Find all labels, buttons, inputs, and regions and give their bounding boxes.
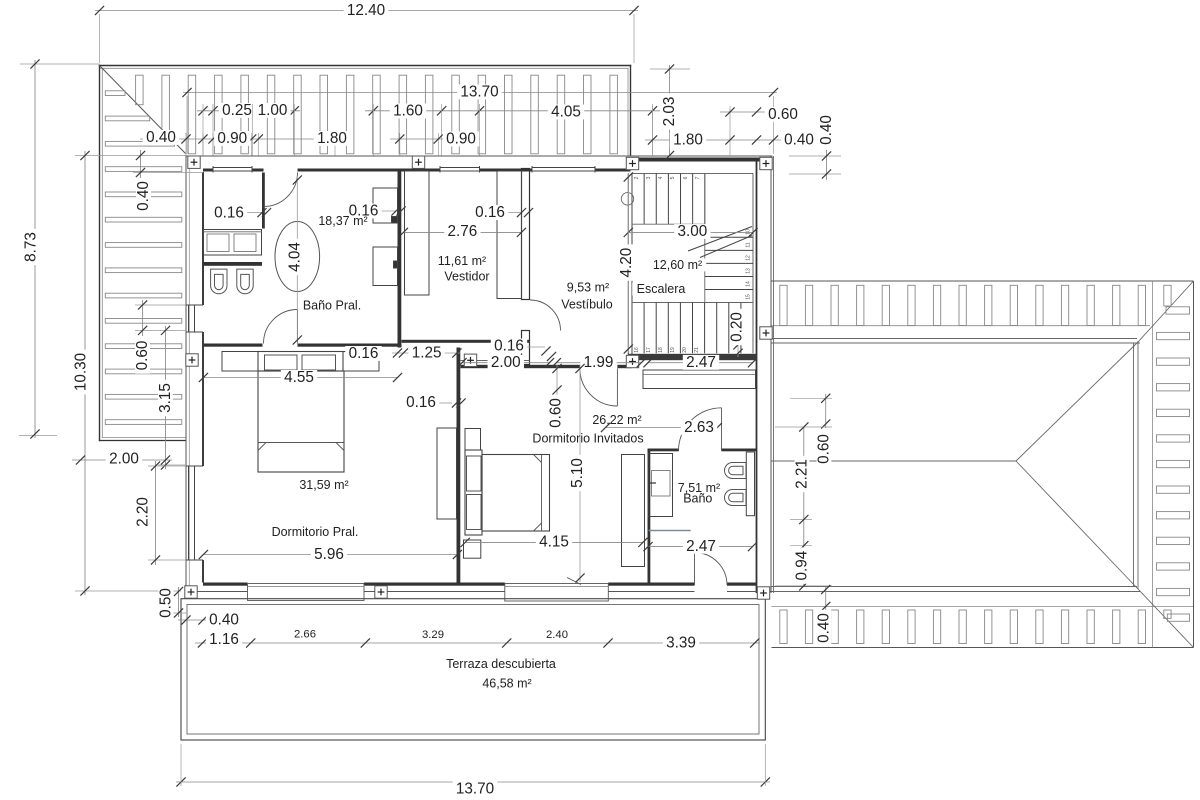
svg-text:15: 15	[746, 294, 752, 300]
roof top-left band outline	[100, 66, 631, 441]
svg-text:2.47: 2.47	[686, 354, 716, 371]
wall stair bottom	[628, 354, 756, 360]
column markers	[185, 156, 772, 599]
terrace inner line	[187, 605, 759, 735]
label Bano	[678, 481, 720, 506]
svg-text:0.16: 0.16	[475, 204, 505, 221]
svg-text:0.16: 0.16	[349, 345, 379, 362]
svg-text:4.20: 4.20	[618, 248, 635, 278]
wall partition Bano Pral toilets	[203, 262, 262, 266]
svg-text:0.60: 0.60	[548, 398, 565, 428]
svg-text:3.15: 3.15	[157, 383, 174, 413]
svg-text:4: 4	[658, 176, 664, 179]
wall Bano Pral bottom	[203, 344, 402, 347]
svg-text:18: 18	[658, 347, 664, 353]
svg-text:10.30: 10.30	[73, 353, 90, 391]
dim 0.60 top right	[720, 106, 801, 123]
label Terraza	[446, 657, 556, 691]
svg-text:4.55: 4.55	[284, 369, 314, 386]
window top wall above Vestibulo	[532, 166, 595, 173]
wall Vestibulo / Dormitorio Invitados bottom	[461, 361, 633, 369]
svg-text:0.40: 0.40	[816, 613, 833, 643]
svg-text:0.90: 0.90	[217, 130, 247, 147]
svg-text:31,59 m²: 31,59 m²	[299, 478, 348, 492]
svg-text:2.03: 2.03	[661, 97, 678, 127]
svg-text:0.40: 0.40	[209, 612, 239, 629]
door Bano Pral entry	[264, 173, 298, 207]
dim row upper (0.25 1.00 1.60 4.05)	[197, 102, 660, 121]
Bano towel rail	[649, 530, 691, 532]
dim 0.60 Dormitorio Invitados vertical	[548, 364, 565, 431]
Bano Pral bidet	[237, 269, 253, 294]
dim 4.20 Escalera vertical	[618, 172, 635, 353]
door Bano Pral to Dormitorio	[264, 310, 298, 344]
right exterior wall	[753, 156, 774, 593]
wall Bano left	[648, 449, 651, 583]
svg-text:Vestíbulo: Vestíbulo	[561, 298, 612, 312]
svg-text:3.29: 3.29	[422, 629, 444, 641]
svg-text:4.04: 4.04	[287, 242, 304, 272]
svg-text:Dormitorio Pral.: Dormitorio Pral.	[272, 525, 359, 539]
svg-text:21: 21	[694, 347, 700, 353]
dim 0.20 stair wall	[729, 309, 746, 358]
svg-text:3.39: 3.39	[666, 635, 696, 652]
svg-text:0.60: 0.60	[816, 434, 833, 464]
Dormitorio Invitados sideboard under stairs	[643, 370, 756, 389]
wall Bano Pral / Vestidor	[398, 169, 402, 348]
svg-text:Escalera: Escalera	[637, 282, 686, 296]
svg-text:8.73: 8.73	[23, 232, 40, 262]
svg-text:0.40: 0.40	[146, 129, 176, 146]
label Vestibulo	[561, 281, 612, 312]
svg-text:4.05: 4.05	[551, 104, 581, 121]
roof right wing hip ridge and diagonals	[772, 281, 1194, 648]
roof hatch right wing top band	[780, 285, 1171, 325]
svg-text:2.00: 2.00	[491, 354, 521, 371]
dim 2.20 vertical left	[135, 461, 187, 565]
dim 2.03 vertical	[650, 64, 690, 160]
wall stair left	[628, 173, 632, 360]
window bottom wall Dormitorio Pral	[248, 584, 365, 601]
dim 0.16 and 1.25 row	[345, 344, 461, 362]
svg-text:5.10: 5.10	[569, 458, 586, 488]
svg-text:17: 17	[646, 347, 652, 353]
svg-text:4.15: 4.15	[539, 533, 569, 550]
dim 0.40 vertical top right wall	[789, 112, 841, 180]
dim 8.73 left	[19, 59, 100, 438]
dim 2.00 / 1.99 / 2.47 row	[457, 354, 757, 371]
dim extension lines top rows	[186, 104, 730, 156]
svg-text:2.47: 2.47	[686, 538, 716, 555]
roof hatch right wing bottom band	[780, 610, 1171, 644]
dim 4.15	[461, 533, 648, 550]
svg-text:16: 16	[634, 347, 640, 353]
terrace slider door Dormitorio Invitados	[505, 584, 609, 602]
dim 0.16 Vestidor right wall	[472, 204, 533, 221]
dim terrace chain (1.16 2.66 3.29 2.40 3.39)	[195, 629, 760, 652]
svg-text:Baño: Baño	[683, 492, 712, 506]
svg-text:1.99: 1.99	[584, 354, 614, 371]
svg-text:2.63: 2.63	[684, 419, 714, 436]
label Dormitorio Pral	[272, 478, 359, 539]
Vestidor wardrobe left	[405, 171, 430, 295]
Bano Pral shower cabinet lower	[373, 247, 398, 286]
dim 12.40 top	[95, 2, 639, 63]
Dormitorio Invitados bed	[465, 450, 550, 535]
Bano bidet	[725, 490, 747, 506]
wall Dormitorio Pral / Invitados	[457, 348, 461, 583]
window left wall upper	[186, 305, 203, 332]
svg-text:11,61 m²: 11,61 m²	[438, 254, 486, 268]
svg-text:1.80: 1.80	[317, 130, 347, 147]
dim 0.16 Bano Pral right wall	[345, 203, 405, 220]
dim 3.00 Escalera	[624, 223, 758, 240]
dim 2.00 left horizontal	[72, 451, 172, 468]
stair tread numbers	[634, 176, 752, 352]
svg-text:Vestidor: Vestidor	[444, 270, 489, 284]
svg-text:0.16: 0.16	[494, 338, 524, 355]
dim 0.50 vertical left bottom	[158, 585, 188, 621]
svg-text:5.96: 5.96	[314, 546, 344, 563]
svg-text:2.20: 2.20	[135, 497, 152, 527]
roof hatch top band (vertical rafter bars)	[136, 75, 618, 154]
Bano vanity	[648, 454, 673, 517]
svg-text:0.94: 0.94	[794, 550, 811, 580]
label Vestidor	[438, 254, 490, 284]
svg-text:2.40: 2.40	[546, 629, 568, 641]
Bano Pral shower cabinet upper	[373, 188, 398, 223]
Bano Pral bathtub ellipse	[275, 222, 320, 292]
roof right wing outline and eaves	[772, 281, 1194, 648]
svg-text:18,37 m²: 18,37 m²	[318, 214, 367, 228]
svg-text:14: 14	[746, 281, 752, 287]
svg-text:1.25: 1.25	[412, 344, 442, 361]
svg-text:0.16: 0.16	[406, 394, 436, 411]
svg-text:0.25: 0.25	[222, 102, 252, 119]
dim 0.16 Vestibulo bottom wall	[491, 338, 556, 362]
Bano toilet	[725, 463, 747, 479]
dim 2.63	[601, 419, 722, 436]
svg-text:2: 2	[634, 176, 640, 179]
dim 2.76 Vestidor	[399, 223, 526, 240]
door Bano lower	[695, 553, 728, 586]
Bano Pral toilet	[211, 269, 227, 294]
svg-text:1.00: 1.00	[258, 102, 288, 119]
dim 5.10 vertical	[569, 364, 586, 583]
svg-text:Baño Pral.: Baño Pral.	[303, 299, 361, 313]
Dormitorio Pral wardrobe	[437, 428, 457, 519]
stair break line	[688, 227, 752, 258]
label Bano Pral	[303, 214, 368, 313]
Dormitorio Pral bed	[258, 352, 344, 473]
top exterior wall	[186, 156, 773, 173]
svg-text:26,22 m²: 26,22 m²	[592, 413, 641, 427]
svg-text:2.66: 2.66	[294, 629, 316, 641]
dim 0.60 right chain	[790, 394, 833, 467]
svg-text:7: 7	[695, 176, 701, 179]
roof hatch right wing right band	[1157, 307, 1190, 622]
svg-text:Terraza descubierta: Terraza descubierta	[446, 657, 556, 671]
svg-text:0.60: 0.60	[768, 106, 798, 123]
wall Vestidor bottom	[402, 340, 530, 343]
svg-text:2.76: 2.76	[448, 223, 478, 240]
Dormitorio Invitados nightstand upper	[465, 429, 481, 451]
svg-text:12,60 m²: 12,60 m²	[653, 258, 702, 272]
svg-text:12: 12	[746, 255, 752, 261]
svg-text:0.20: 0.20	[729, 312, 746, 342]
terrace door leaf mark	[567, 578, 581, 585]
svg-text:0.50: 0.50	[158, 588, 175, 618]
dim 5.96	[199, 546, 462, 563]
dim 4.04 Bano Pral vertical	[287, 175, 304, 344]
dim 0.16 Bano Pral stub	[211, 205, 271, 222]
wall stub Bano Pral door	[262, 173, 265, 229]
dim 0.40 terrace left	[178, 612, 242, 629]
Dormitorio Invitados wardrobe	[622, 455, 645, 567]
wall Vestidor / Vestibulo	[522, 169, 530, 365]
svg-text:13.70: 13.70	[456, 781, 494, 798]
dim 0.40 vertical left top	[133, 150, 203, 214]
Bano Pral vanity	[204, 230, 262, 256]
dim 13.70 upper	[182, 84, 778, 155]
svg-text:9,53 m²: 9,53 m²	[567, 281, 609, 295]
svg-text:0.90: 0.90	[446, 131, 476, 148]
stair newel circle	[621, 193, 633, 205]
Bano wall pilaster	[746, 452, 754, 516]
window top wall above Bano Pral	[213, 166, 252, 173]
svg-text:0.40: 0.40	[784, 132, 814, 149]
svg-text:5: 5	[670, 176, 676, 179]
svg-text:2.00: 2.00	[109, 451, 139, 468]
terrace outline	[181, 599, 765, 740]
svg-text:6: 6	[683, 176, 689, 179]
svg-text:1.16: 1.16	[209, 631, 239, 648]
dim 13.70 bottom	[176, 744, 770, 798]
svg-text:1.60: 1.60	[393, 103, 423, 120]
svg-text:10: 10	[746, 229, 752, 235]
svg-text:0.16: 0.16	[214, 205, 244, 222]
dim 0.16 Dormitorio wall	[403, 394, 466, 411]
staircase Escalera	[632, 173, 753, 353]
svg-text:12.40: 12.40	[347, 2, 385, 19]
dim 2.47 Bano bottom	[643, 538, 757, 555]
roof hip diagonal top-left	[100, 66, 186, 154]
roof hatch left band (horizontal rafter bars)	[105, 91, 182, 425]
svg-text:0.40: 0.40	[818, 115, 835, 145]
left exterior wall	[186, 156, 203, 592]
svg-text:3: 3	[646, 176, 652, 179]
dim 10.30 left	[73, 151, 187, 596]
Dormitorio Pral nightstand right	[343, 352, 379, 372]
door Dormitorio Invitados to Bano	[679, 408, 722, 451]
svg-text:46,58 m²: 46,58 m²	[482, 677, 531, 691]
svg-text:11: 11	[746, 242, 752, 247]
dim row lower (0.40 0.90 1.80 0.90 1.80 0.40)	[140, 129, 817, 149]
svg-text:13.70: 13.70	[460, 84, 498, 101]
svg-text:3.00: 3.00	[678, 223, 708, 240]
svg-text:20: 20	[682, 347, 688, 353]
bottom exterior wall	[186, 583, 773, 592]
door Vestibulo to Dormitorio Invitados	[580, 369, 618, 407]
wall Bano top	[648, 449, 757, 452]
svg-text:2.21: 2.21	[794, 459, 811, 489]
label Escalera	[632, 258, 706, 296]
dim 3.15 vertical left	[157, 326, 186, 470]
Dormitorio Pral nightstand left	[222, 352, 258, 372]
svg-text:0.40: 0.40	[135, 181, 152, 211]
dim 0.40 right chain bottom	[816, 585, 833, 646]
Dormitorio Pral nightstand lower	[464, 540, 481, 558]
svg-text:Dormitorio Invitados: Dormitorio Invitados	[532, 432, 643, 446]
label Dormitorio Invitados	[532, 413, 643, 446]
svg-text:1.80: 1.80	[673, 132, 703, 149]
Vestidor wardrobe right	[497, 171, 522, 299]
dim 4.55 Dormitorio Pral	[199, 369, 402, 386]
svg-text:19: 19	[670, 347, 676, 353]
dim 2.21 / 0.94 right chain	[775, 422, 832, 590]
door Vestidor to Vestibulo	[530, 300, 561, 331]
svg-text:13: 13	[746, 268, 752, 274]
window top wall above Vestidor	[440, 166, 480, 173]
svg-text:0.60: 0.60	[134, 341, 151, 371]
dim 0.60 vertical left	[134, 300, 186, 374]
window left wall lower	[186, 466, 203, 560]
